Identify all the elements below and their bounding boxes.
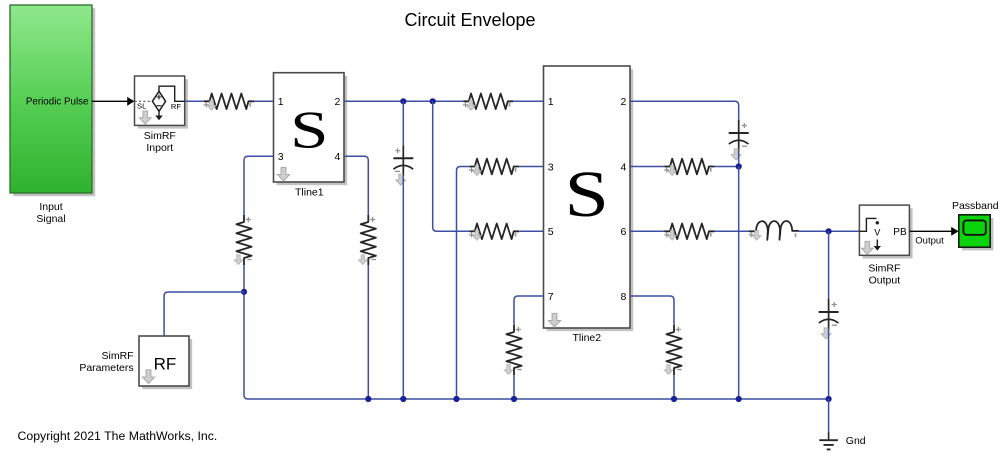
svg-text:SimRF: SimRF: [144, 130, 176, 142]
wire Tline1 pin 3 down to R9: [244, 156, 274, 215]
svg-text:2: 2: [334, 96, 340, 108]
bus junction (R5): [511, 396, 517, 402]
wire L1 to SimRF Output (through node D): [799, 230, 860, 232]
wire node D down to C3: [828, 231, 830, 299]
wire R2 to Tline2 pin 1: [513, 100, 543, 102]
resistor R10 (Tline1 pin 4 termination): [358, 215, 376, 265]
label Tline1: [295, 187, 324, 199]
resistor R1 (series, input): [204, 94, 254, 111]
svg-text:Tline1: Tline1: [295, 187, 324, 199]
wire node C down to ground bus (crosses pin-6 net): [738, 167, 740, 400]
svg-text:SL: SL: [137, 102, 146, 111]
block SimRF Parameters (RF configuration): [139, 336, 192, 389]
svg-text:Inport: Inport: [146, 142, 173, 154]
svg-text:RF: RF: [171, 102, 181, 111]
wire node B down to R3 (Tline2 pin 5 branch): [433, 101, 470, 231]
resistor R5 (pin 7 termination): [504, 325, 522, 375]
block SimRF Inport (controlled source symbol, pins SL and RF): [135, 76, 188, 129]
wire R5 to ground bus: [513, 375, 515, 399]
wire R3 to Tline2 pin 5: [519, 230, 543, 232]
node D junction: [826, 228, 832, 234]
wire Tline1 pin 4 down to R10: [344, 156, 368, 215]
svg-text:7: 7: [548, 291, 554, 303]
wire C3 to ground bus: [828, 330, 830, 399]
svg-text:SimRF: SimRF: [868, 263, 900, 275]
node A junction (to C1): [400, 98, 406, 104]
block Tline1 (S-parameter transmission line, 4 ports): [274, 73, 348, 186]
bus junction (R8): [671, 396, 677, 402]
wire R1 to Tline1 pin 1: [254, 100, 274, 102]
svg-text:6: 6: [621, 226, 627, 238]
capacitor C1 (shunt, polarized): [393, 145, 413, 185]
wire R4 down to ground bus: [457, 167, 470, 400]
svg-text:Parameters: Parameters: [79, 362, 133, 374]
wire SimRF Inport RF pin to R1: [185, 100, 204, 102]
svg-text:3: 3: [548, 161, 554, 173]
svg-text:1: 1: [548, 96, 554, 108]
svg-text:Periodic Pulse: Periodic Pulse: [26, 96, 89, 107]
resistor R9 (Tline1 pin 3 termination): [234, 215, 252, 265]
wire R10 to ground bus: [367, 265, 369, 399]
wire Tline2 pin 2 to C2: [630, 101, 738, 120]
wire Input Signal to SimRF Inport (signal line with arrowhead): [92, 97, 134, 106]
wire node A down to C1: [402, 101, 404, 145]
resistor R7 (series from pin 6): [664, 224, 714, 241]
svg-text:Signal: Signal: [36, 213, 65, 225]
svg-text:Output: Output: [869, 275, 901, 287]
label SimRF Parameters: [79, 350, 133, 374]
bus junction (node C rail): [736, 396, 742, 402]
wire Tline2 pin 6 to R7: [630, 230, 664, 232]
wire SimRF Output PB to Passband scope (Output signal): [910, 227, 959, 236]
Tline1 pin numbers 1 2 3 4: [278, 96, 341, 163]
svg-text:Input: Input: [39, 201, 62, 213]
svg-text:S: S: [290, 101, 328, 160]
bus junction (C1): [400, 396, 406, 402]
label Output (signal name): [915, 236, 944, 247]
svg-text:SimRF: SimRF: [102, 350, 134, 362]
svg-text:1: 1: [278, 96, 284, 108]
label Passband: [952, 200, 999, 212]
capacitor C3 (shunt at output): [819, 299, 839, 339]
svg-text:2: 2: [621, 96, 627, 108]
block Tline2 (S-parameter transmission line, 8 ports): [544, 66, 634, 331]
svg-text:Passband: Passband: [952, 200, 999, 212]
label SimRF Inport: [144, 130, 176, 154]
svg-text:4: 4: [334, 151, 340, 163]
svg-text:PB: PB: [893, 227, 907, 238]
wire R6 to node C junction: [715, 166, 739, 168]
node C junction: [736, 163, 742, 169]
title Circuit Envelope: [404, 10, 535, 30]
resistor R8 (pin 8 termination): [664, 325, 682, 375]
svg-text:Tline2: Tline2: [572, 332, 601, 344]
wire Tline2 pin 8 to R8: [630, 296, 674, 325]
label Gnd: [846, 435, 866, 447]
svg-text:4: 4: [621, 161, 627, 173]
svg-text:8: 8: [621, 291, 627, 303]
block Input Signal (Periodic Pulse source): [10, 5, 95, 225]
svg-text:V: V: [874, 228, 881, 238]
svg-text:Output: Output: [915, 236, 944, 247]
Tline2 pin numbers 1-8: [548, 96, 627, 303]
resistor R3 (series into Tline2 pin 5): [469, 224, 519, 241]
svg-text:Gnd: Gnd: [846, 435, 866, 447]
wire SimRF Parameters to node E: [164, 292, 244, 336]
wire Tline2 pin 3 to R4: [519, 166, 543, 168]
svg-text:3: 3: [278, 151, 284, 163]
bus junction (R4): [453, 396, 459, 402]
resistor R6 (series from pin 4): [664, 159, 714, 176]
inductor L1 (series): [749, 221, 799, 240]
bus junction (C3 / ground): [826, 396, 832, 402]
block Passband (scope): [959, 215, 994, 251]
bus junction (R10): [365, 396, 371, 402]
wire C2 to node C: [738, 151, 740, 167]
label SimRF Output: [868, 263, 900, 287]
wire C1 to ground bus: [402, 176, 404, 399]
wire Tline2 pin 7 to R5: [514, 296, 544, 325]
resistor R2 (series into Tline2 pin 1): [463, 94, 513, 111]
wire R9 to ground bus (left rail, through node E): [244, 265, 829, 399]
svg-text:Copyright 2021 The MathWorks,: Copyright 2021 The MathWorks, Inc.: [18, 429, 218, 443]
svg-text:5: 5: [548, 226, 554, 238]
wire R7 to L1: [715, 230, 750, 232]
resistor R4 (Tline2 pin 3 termination): [469, 159, 519, 176]
capacitor C2 (shunt at node C): [729, 120, 749, 160]
node E junction (SimRF Parameters tap): [241, 289, 247, 295]
svg-text:Circuit Envelope: Circuit Envelope: [404, 10, 535, 30]
annotation copyright: [18, 429, 218, 443]
ground symbol Gnd: [819, 432, 838, 449]
block SimRF Output (voltage probe, pin PB): [859, 205, 912, 258]
wire R8 to ground bus: [673, 375, 675, 399]
svg-text:S: S: [565, 158, 609, 231]
svg-text:RF: RF: [154, 355, 177, 374]
wire Tline2 pin 4 to R6: [630, 166, 664, 168]
wire Tline1 pin 2 to R2 (net through nodes A,B): [344, 100, 463, 102]
node B junction (to R3 branch): [430, 98, 436, 104]
wire bus to ground symbol: [828, 399, 830, 432]
label Tline2: [572, 332, 601, 344]
